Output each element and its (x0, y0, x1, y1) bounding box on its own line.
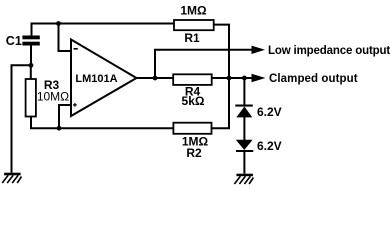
svg-text:LM101A: LM101A (75, 73, 117, 85)
svg-text:6.2V: 6.2V (257, 105, 282, 119)
svg-text:Low impedance output: Low impedance output (268, 45, 390, 57)
svg-text:10MΩ: 10MΩ (37, 90, 69, 104)
svg-text:1MΩ: 1MΩ (180, 3, 207, 17)
svg-text:R2: R2 (186, 146, 202, 160)
svg-text:R1: R1 (184, 31, 200, 45)
svg-text:6.2V: 6.2V (257, 139, 282, 153)
svg-text:C1: C1 (6, 34, 22, 48)
svg-text:5kΩ: 5kΩ (182, 94, 205, 108)
svg-text:Clamped output: Clamped output (269, 73, 358, 85)
